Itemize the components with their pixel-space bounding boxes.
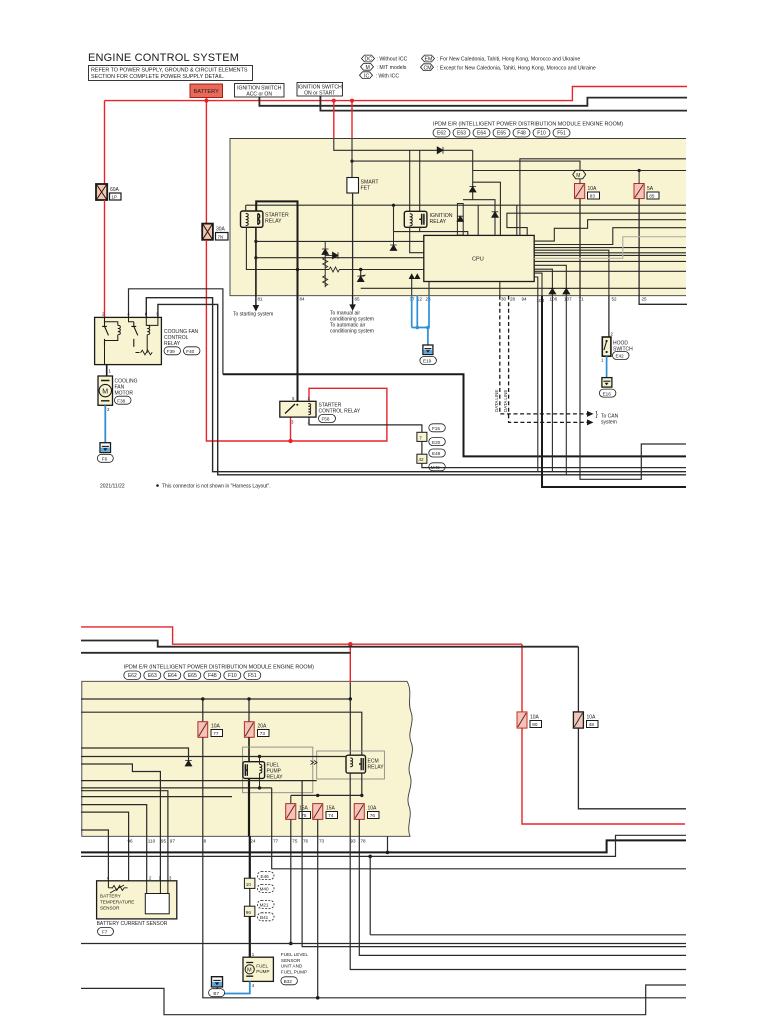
pin labels bottom of IPDM top — [258, 297, 648, 304]
svg-text:76: 76 — [303, 839, 309, 844]
node x387 join L1 — [386, 851, 390, 855]
wire bus y934.8 from junction — [370, 934, 686, 936]
wire M fuse hex link — [579, 179, 581, 184]
wire staircase left — [81, 764, 160, 881]
svg-text:IPDM E/R (INTELLIGENT POWER DI: IPDM E/R (INTELLIGENT POWER DISTRIBUTION… — [433, 122, 623, 128]
svg-text:48: 48 — [589, 722, 595, 727]
diode D1 on B+ line — [437, 147, 443, 154]
svg-text:30A: 30A — [216, 227, 226, 233]
svg-text:system: system — [601, 420, 617, 426]
svg-text:E16: E16 — [603, 391, 612, 396]
fuse 15A-75 — [286, 804, 311, 820]
svg-text:8: 8 — [204, 839, 207, 844]
wire ignition relay contact return — [419, 227, 421, 231]
svg-text:30: 30 — [501, 297, 507, 302]
svg-text:42: 42 — [419, 457, 425, 462]
connector ovals E62 E63 E64 E65 F48 F10 F51 (bottom) — [124, 671, 261, 680]
svg-text:conditioning system: conditioning system — [330, 329, 374, 335]
wire B+ drop x472 — [472, 150, 474, 199]
svg-text:RELAY: RELAY — [265, 219, 282, 225]
wire CPU top pin to edge y158 — [520, 159, 686, 236]
svg-text:PUMP: PUMP — [256, 969, 269, 974]
svg-text:F7: F7 — [102, 930, 108, 935]
node branch 241 — [254, 240, 257, 243]
wire bus y756 — [81, 756, 346, 758]
wire pin65 to AC arrow — [330, 296, 374, 335]
wire cooling fan pin4 loop — [129, 289, 223, 374]
svg-text:M21: M21 — [260, 903, 269, 908]
svg-text:78: 78 — [361, 839, 367, 844]
svg-text:10A: 10A — [588, 186, 598, 192]
node branch 257 — [254, 256, 257, 259]
wire branch to M fuse — [352, 161, 580, 169]
svg-text:85: 85 — [649, 194, 655, 199]
wire diode branch left — [81, 748, 189, 761]
wire ecm coil drop — [349, 699, 351, 755]
svg-text:F10: F10 — [537, 131, 546, 137]
svg-text:BATTERY CURRENT SENSOR: BATTERY CURRENT SENSOR — [97, 921, 168, 927]
resistor R-h horizontal — [329, 267, 343, 272]
svg-text:: M/T models: : M/T models — [377, 65, 407, 71]
oval F7 — [98, 928, 114, 936]
svg-text:95: 95 — [161, 839, 167, 844]
svg-text:E42: E42 — [616, 354, 625, 359]
svg-text:E62: E62 — [437, 131, 446, 137]
node battery junction — [204, 99, 208, 103]
svg-text:106: 106 — [550, 297, 558, 302]
svg-text:EM: EM — [425, 57, 433, 63]
node 10A feed — [201, 697, 204, 700]
svg-text:F6: F6 — [102, 457, 108, 462]
sub network vertical x325 — [324, 241, 326, 287]
wire x387 stub — [387, 836, 389, 852]
ignition relay — [404, 211, 427, 227]
CPU box — [424, 235, 534, 281]
svg-text:RELAY: RELAY — [164, 341, 181, 347]
svg-text:84: 84 — [300, 297, 306, 302]
grey outline box fuel pump relay — [243, 747, 313, 793]
wire pin 107 drop — [565, 296, 567, 475]
svg-text:7: 7 — [419, 435, 422, 440]
wire CPU out to pin 106 — [534, 269, 552, 295]
wire bus y712 in block — [81, 712, 362, 755]
svg-text:: Except for New Caledonia, Ta: : Except for New Caledonia, Tahiti, Hong… — [437, 65, 596, 71]
wire 10A-77 feed — [202, 699, 204, 722]
starter control relay — [280, 396, 361, 425]
wire fuel pump ground (blue) — [217, 981, 250, 993]
ground B7 — [209, 977, 225, 997]
wire pin 106 drop — [551, 296, 553, 472]
wire ignition feed bottom (black) — [81, 641, 578, 647]
svg-text:: For New Caledonia, Tahiti, H: : For New Caledonia, Tahiti, Hong Kong, … — [437, 57, 580, 63]
fusible link 30A — [202, 224, 228, 240]
wire CPU out to pin 104 — [534, 273, 542, 296]
wire starter relay contact to pin 84 — [256, 201, 297, 295]
resistor R2 vertical — [323, 276, 328, 287]
wire 20A feed — [248, 699, 250, 722]
svg-text:CONTROL RELAY: CONTROL RELAY — [319, 409, 361, 415]
legend hexagon IC — [360, 72, 400, 80]
wire v393b — [393, 232, 395, 245]
title — [88, 52, 239, 64]
wire CPU out x537 — [534, 277, 538, 296]
wire fuse74 to pin73 — [317, 819, 319, 997]
svg-text:10A: 10A — [530, 715, 540, 721]
svg-text:FET: FET — [361, 186, 372, 192]
svg-text:REFER TO POWER SUPPLY, GROUND: REFER TO POWER SUPPLY, GROUND & CIRCUIT … — [91, 68, 248, 74]
svg-text:FUEL LEVEL: FUEL LEVEL — [281, 952, 309, 957]
svg-text:93: 93 — [351, 839, 357, 844]
svg-text:BATTERY: BATTERY — [194, 89, 220, 95]
cooling fan motor — [98, 376, 138, 405]
wire bus y780 — [81, 780, 317, 782]
wire starter relay coil feed — [245, 205, 247, 211]
wire bus y699 in block — [81, 698, 350, 700]
wire pin 25 exit — [639, 296, 687, 305]
legend hexagon M — [361, 63, 407, 71]
grey outline box ecm relay — [317, 751, 385, 779]
node ign2 junction — [350, 99, 354, 103]
svg-text:73: 73 — [260, 731, 266, 736]
fuse 10A right red — [517, 712, 542, 728]
svg-text:ENGINE CONTROL SYSTEM: ENGINE CONTROL SYSTEM — [88, 52, 239, 64]
ecm relay — [346, 755, 384, 773]
node y205 x393 — [392, 204, 395, 207]
zener diode branch to y288 bus — [360, 270, 362, 277]
wire motor to ground (blue) — [104, 405, 106, 442]
wire pin24 to fuel pump — [249, 916, 251, 957]
svg-text:,: , — [183, 348, 184, 353]
wire bus y830 to sensor pin4 — [81, 830, 108, 881]
footnote — [156, 484, 270, 490]
node red junction bottom — [348, 642, 352, 646]
wire CPU out y252 — [534, 252, 686, 254]
wire 20A to fuel pump relay contact (thick) — [248, 737, 250, 761]
svg-text:E63: E63 — [457, 131, 466, 137]
svg-text:E48: E48 — [432, 451, 441, 456]
svg-text:10A: 10A — [211, 724, 221, 730]
svg-text:SENSOR: SENSOR — [281, 958, 301, 963]
svg-text:24: 24 — [250, 839, 256, 844]
svg-text:96: 96 — [246, 910, 252, 915]
svg-text:F15: F15 — [432, 426, 440, 431]
node 5A feed — [638, 169, 641, 172]
svg-text:MOTOR: MOTOR — [115, 391, 134, 397]
wire CPU out y255 — [534, 254, 686, 256]
svg-text:UNIT AND: UNIT AND — [281, 964, 303, 969]
legend hexagon CM — [421, 64, 596, 72]
svg-text:10A: 10A — [368, 806, 378, 812]
note box — [89, 66, 253, 81]
wire ON/START switch (black) — [320, 96, 687, 111]
svg-text:10A: 10A — [587, 715, 597, 721]
wire CPU top pin x516 — [516, 205, 518, 235]
wire battery bus (red) — [105, 87, 688, 101]
diode box near ignition relay — [457, 204, 463, 236]
svg-text:80: 80 — [532, 722, 538, 727]
svg-text:E46: E46 — [261, 874, 270, 879]
svg-text:E65: E65 — [497, 131, 506, 137]
wire fp coil drop — [259, 757, 261, 765]
svg-text:DATA LINE: DATA LINE — [494, 390, 499, 412]
svg-text:76: 76 — [370, 813, 376, 818]
node junction on pin84 wire — [296, 268, 299, 271]
wire pin93 below block to bus — [350, 836, 686, 969]
wire fuse feeds — [290, 795, 292, 803]
svg-text:RELAY: RELAY — [430, 219, 447, 225]
wire CPU out to pin 107 — [534, 265, 566, 295]
svg-text:E19: E19 — [423, 359, 432, 364]
svg-text:25: 25 — [642, 297, 648, 302]
wire black to right 10A fuse — [577, 647, 579, 712]
ignition switch ACC or ON box — [235, 84, 285, 98]
wire full-width bus y943 — [81, 943, 686, 945]
wire ACC switch (black) — [259, 97, 687, 106]
hexagon M over fuse — [573, 170, 586, 179]
node pin73 bottom join — [316, 996, 320, 1000]
wire relay pin2 to connector 7 — [309, 417, 422, 432]
wire smart fet to pin 65 — [352, 193, 354, 296]
svg-text:FUEL PUMP: FUEL PUMP — [281, 969, 307, 974]
svg-text:107: 107 — [564, 297, 572, 302]
wire bottom bus y479 — [580, 296, 686, 480]
wire pin8 bottom run — [203, 836, 686, 998]
ground F6 — [97, 443, 113, 463]
wire bus L1 thick stepped — [81, 840, 686, 852]
wire v370 drop — [369, 856, 371, 934]
wire battery to 30A (red) — [205, 98, 207, 224]
svg-text:DC: DC — [365, 57, 373, 63]
wire red to right 10A fuse — [521, 644, 523, 712]
wire ignition relay coil feed — [409, 150, 411, 211]
CAN arrowheads — [587, 411, 594, 417]
diode D3 — [469, 187, 476, 193]
diode D6 right — [333, 252, 339, 259]
node fuse bus — [360, 794, 363, 797]
svg-text:81: 81 — [258, 297, 264, 302]
wire ignition relay contact feed — [419, 150, 421, 211]
wire CPU out y261 — [534, 260, 686, 262]
svg-text:52: 52 — [612, 297, 618, 302]
svg-text:M40: M40 — [260, 887, 269, 892]
fuel pump unit — [243, 952, 308, 988]
wire CPU bottom pins stubs — [499, 282, 501, 296]
legend hexagon EM — [422, 55, 581, 63]
wire branch y241 to CPU — [256, 240, 424, 242]
wire small fuse bus y795 — [291, 794, 362, 796]
wire CPU out staircase b — [534, 228, 686, 245]
svg-text:CM: CM — [424, 65, 432, 71]
wire ecm contact return — [361, 773, 363, 795]
wire fuse75 to pin75 — [290, 819, 292, 943]
svg-text:IC: IC — [364, 73, 369, 79]
wire pin81 to starting system arrow — [233, 296, 273, 318]
svg-text:M: M — [247, 968, 252, 974]
fuse 10A right black — [573, 712, 598, 728]
wire x537 below block — [537, 296, 539, 472]
wire 10A-77 to pin 8 — [202, 737, 204, 836]
svg-text:65: 65 — [355, 297, 361, 302]
wire bus y788 — [81, 787, 272, 789]
To CAN system text — [596, 412, 619, 426]
wire y231 — [394, 232, 468, 236]
wire branch y257 to CPU — [256, 257, 424, 259]
wire ign1 drop to smart fet — [351, 101, 353, 178]
svg-text:ACC or ON: ACC or ON — [246, 91, 272, 97]
svg-text:M: M — [576, 173, 580, 179]
wire CPU bottom pin 23 — [428, 282, 430, 296]
IPDM E/R title (bottom) — [124, 665, 314, 671]
svg-text:TEMPERATURE: TEMPERATURE — [100, 900, 134, 905]
cooling fan control relay — [95, 311, 200, 364]
legend hexagon DC — [362, 55, 408, 63]
wire blue grounds pins 37 12 23 — [412, 296, 429, 345]
svg-text:110: 110 — [148, 839, 156, 844]
svg-text:77: 77 — [273, 839, 279, 844]
svg-text:F39: F39 — [167, 349, 175, 354]
diode Dbl — [185, 761, 192, 767]
svg-text:F58: F58 — [322, 417, 330, 422]
battery box — [190, 84, 223, 98]
node ign1 junction — [332, 99, 336, 103]
connector 10 box — [244, 872, 274, 893]
svg-text:F51: F51 — [557, 131, 566, 137]
wire bottom bus thick y487 — [542, 296, 686, 487]
wire pin24 between connectors — [249, 888, 251, 906]
svg-text:SENSOR: SENSOR — [100, 906, 120, 911]
battery temperature sensor — [97, 876, 177, 919]
diode D5 — [322, 249, 329, 255]
ignition switch ON or START box — [297, 83, 343, 97]
wire red fuse down and right — [522, 728, 685, 824]
wire red drop to ECM relay — [349, 644, 351, 699]
svg-text:SECTION FOR COMPLETE POWER SUP: SECTION FOR COMPLETE POWER SUPPLY DETAIL… — [91, 74, 225, 80]
diode on x495 — [492, 212, 499, 218]
svg-text:73: 73 — [319, 839, 325, 844]
pin labels bottom block — [128, 839, 367, 844]
IPDM E/R block (top) — [230, 139, 686, 296]
wire pin84 down to starter control relay — [297, 296, 299, 402]
wire CPU out staircase a — [534, 220, 686, 241]
wire CPU top zigzag to edge y213 — [507, 213, 686, 235]
wire bus y288 — [361, 287, 686, 289]
svg-text:97: 97 — [170, 839, 176, 844]
svg-text:F38: F38 — [117, 398, 125, 403]
wire 30A to starter control relay (red) — [206, 240, 387, 441]
wire pin24 thick down — [249, 836, 251, 878]
svg-text:F48: F48 — [208, 673, 217, 679]
diode D8 under CPU — [563, 288, 570, 294]
wire y170 to edge — [473, 170, 686, 172]
wire hood switch ground (blue) — [606, 356, 608, 377]
node ecm feed — [349, 697, 352, 700]
ground E19 — [420, 345, 437, 365]
svg-text:IPDM E/R (INTELLIGENT POWER DI: IPDM E/R (INTELLIGENT POWER DISTRIBUTION… — [124, 665, 314, 671]
fuel pump relay — [243, 762, 283, 781]
svg-text:: Without ICC: : Without ICC — [377, 57, 408, 63]
svg-text:: With ICC: : With ICC — [376, 73, 400, 79]
wire bus y790 to pin97 — [81, 791, 168, 881]
svg-text:F51: F51 — [248, 673, 257, 679]
svg-text:M: M — [366, 65, 370, 71]
fuse 10A (bottom block) — [198, 722, 223, 738]
svg-text:15A: 15A — [299, 806, 309, 812]
svg-text:20A: 20A — [258, 724, 268, 730]
wire bus y812 to sensor box — [81, 812, 145, 890]
wire connector7 to connector42 — [421, 441, 423, 454]
wire stub pins 37 12 — [411, 279, 413, 296]
node fuse74 feed — [316, 794, 319, 797]
wire pin76 drop to bus — [302, 781, 686, 947]
wire relay pin1 to motor — [106, 365, 108, 376]
wire cooling fan pin6 loop — [146, 298, 686, 472]
svg-text:74: 74 — [328, 813, 334, 818]
svg-text:71: 71 — [579, 297, 585, 302]
svg-text:BATTERY: BATTERY — [100, 894, 121, 899]
wire y182 branch — [473, 182, 501, 235]
svg-text:CPU: CPU — [472, 257, 484, 263]
wire bus L2 stepped — [81, 835, 686, 856]
svg-text:96: 96 — [128, 839, 134, 844]
wire bus y796 — [81, 796, 232, 798]
fuse 5A (top) — [634, 184, 659, 200]
svg-text:E64: E64 — [477, 131, 486, 137]
wire starter relay contact to pin 81 — [255, 227, 257, 295]
wire 10A fuse to pin 71 — [579, 199, 581, 296]
wire CPU out grey — [534, 237, 686, 259]
svg-text:60A: 60A — [110, 187, 120, 193]
wire 60A to cooling fan relay (red) — [104, 200, 106, 317]
IPDM E/R block (bottom) with wavy right edge — [82, 681, 413, 836]
wire CPU top pin x478 — [477, 205, 479, 235]
wire second black bus — [81, 652, 350, 654]
fusible link 60A — [96, 184, 121, 200]
svg-text:To starting system: To starting system — [233, 312, 273, 318]
wire ign2 drop into block — [334, 101, 473, 151]
wire CAN dashed line 1 — [500, 296, 588, 414]
svg-text:ON or START: ON or START — [304, 90, 335, 96]
wire CPU top pin x495 diode — [463, 200, 495, 236]
fuse 20A (bottom block) — [244, 722, 269, 738]
wire v393 — [393, 205, 395, 231]
wire bus y205 — [246, 204, 686, 206]
svg-text:F48: F48 — [517, 131, 526, 137]
hood switch — [601, 296, 633, 363]
svg-text:E65: E65 — [188, 673, 197, 679]
starter relay U-ST — [241, 211, 263, 227]
wire 60A feed (red) — [104, 101, 106, 184]
wire fuse76 pin78 drop to bus — [359, 819, 686, 955]
svg-text:F10: F10 — [228, 673, 237, 679]
wire resistor to CPU — [343, 269, 424, 271]
svg-text:83: 83 — [590, 194, 596, 199]
fuse 10A-76 — [354, 804, 379, 820]
svg-text:75: 75 — [292, 839, 298, 844]
wire 5A to pin 25 — [638, 199, 640, 296]
wire black fuse down and right — [578, 728, 686, 809]
IPDM E/R title (top) — [433, 122, 623, 128]
svg-text:94: 94 — [522, 297, 528, 302]
connector 96 box — [244, 900, 274, 920]
node red junction pin3 — [288, 439, 292, 443]
diode D4 — [390, 245, 397, 251]
wire CAN dashed line 2 — [509, 296, 588, 423]
wire 5A feed — [638, 171, 640, 184]
wire connector42 to bus — [422, 463, 686, 467]
svg-text:7N: 7N — [218, 234, 224, 239]
svg-text:FUEL: FUEL — [256, 964, 268, 969]
node L2 junction x370 — [368, 855, 372, 859]
